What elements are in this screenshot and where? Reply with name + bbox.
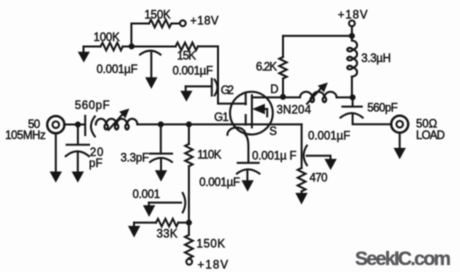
svg-text:0.001µF: 0.001µF (308, 131, 350, 143)
wire: 110K top stem (188, 124, 190, 144)
inductor L1 variable (input tank) (96, 119, 138, 125)
node: +18V junction (349, 33, 355, 39)
wire: 3.3pF stem (160, 124, 162, 152)
wire: tank to 560pF (337, 96, 353, 98)
wire: choke to drain tank (351, 77, 353, 98)
svg-text:+18V: +18V (198, 260, 229, 272)
wire: 20pF stem (77, 125, 79, 145)
svg-text:+18V: +18V (338, 9, 368, 21)
capacitor 0.001uF (source RF bypass) curved plate (304, 146, 307, 166)
svg-text:0.001µF: 0.001µF (173, 66, 214, 78)
svg-text:G1: G1 (214, 112, 229, 124)
capacitor 0.001uF (bias bypass, curved plate) (140, 51, 161, 55)
ground (0.001 cap) (148, 203, 150, 206)
channel bar (251, 95, 253, 127)
svg-text:LOAD: LOAD (416, 130, 445, 142)
wire: source line down to 470 (301, 124, 303, 168)
svg-text:110K: 110K (197, 150, 222, 162)
node: output junction (350, 94, 356, 100)
wire: 20pF to ground (77, 152, 79, 172)
ground (3.3pF) (156, 171, 167, 181)
capacitor 0.001uF (G2 bypass) curved plate (215, 80, 218, 96)
wire: 110K to 33K junction (188, 166, 190, 222)
node: input junction (20pF tap) (75, 122, 81, 128)
svg-text:S: S (269, 126, 277, 138)
svg-text:470: 470 (310, 173, 328, 185)
capacitor 0.001 (G1 bias) curved plate (183, 193, 186, 212)
substrate arrow (263, 109, 267, 116)
capacitor 20pF straight plate (67, 144, 89, 146)
svg-text:150K: 150K (144, 10, 171, 22)
capacitor 560pF (output) straight plate (342, 106, 361, 108)
capacitor 0.001uF (S bypass) straight plate (238, 162, 259, 164)
capacitor 3.3pF straight plate (150, 153, 172, 155)
svg-text:105MHz: 105MHz (5, 130, 46, 142)
terminal +18V (top left) (180, 20, 186, 26)
ground (input connector) (55, 133, 57, 172)
ground (source bypass) (325, 159, 336, 169)
wire: 470 to ground (301, 191, 303, 193)
wire: 0.001 cap lead (149, 202, 181, 204)
terminal +18V (bottom) (186, 259, 192, 265)
wire: 33K to junction (178, 222, 189, 224)
ground (33K) (133, 223, 135, 227)
ground (left of 100K) (83, 47, 85, 53)
wire: source arc hop (227, 127, 245, 134)
wire: +18V rail (top right) (283, 35, 352, 37)
transistor Q1 3N204 body (230, 92, 273, 135)
resistor 6.2K stem top (282, 36, 284, 57)
inductor 3.3uH choke (352, 36, 357, 77)
wire: +18V stem (351, 26, 353, 36)
node: junction 110K/33K/150K (186, 220, 192, 226)
svg-text:0.001: 0.001 (133, 189, 161, 201)
wire: main G1 line (137, 123, 301, 125)
resistor 110K (185, 144, 192, 166)
svg-text:560pF: 560pF (367, 103, 398, 115)
wire: 33K rail (134, 222, 156, 224)
wire: source bypass lead (307, 156, 331, 160)
arrow of variable inductor L2 (307, 88, 321, 104)
node: 110K tap (186, 121, 192, 127)
svg-text:33K: 33K (157, 229, 178, 241)
resistor 6.2K (279, 57, 286, 79)
drain lead (252, 96, 283, 98)
resistor 15K (176, 43, 198, 51)
wire: load connector ground stem (399, 133, 401, 149)
wire: G2 bypass lead (186, 85, 212, 87)
node: drain junction (280, 94, 286, 100)
capacitor 3.3pF curved plate (150, 158, 172, 162)
capacitor 20pF curved plate (66, 151, 89, 156)
svg-text:SeekIC.com: SeekIC.com (355, 248, 451, 270)
capacitor 560pF (input) curved plate (91, 116, 95, 136)
ground (470) (296, 193, 307, 203)
node: junction 100K/150K (129, 43, 135, 49)
svg-text:3N204: 3N204 (277, 105, 312, 117)
capacitor 0.001uF (G2 bypass) straight plate (211, 79, 213, 96)
svg-text:150K: 150K (197, 239, 226, 251)
connector output 50ohm load (391, 116, 408, 133)
wire: input to 560pF (64, 124, 84, 126)
wire: 560pF out stem (352, 97, 354, 105)
gate bar G1 (245, 115, 247, 125)
inductor L2 variable (drain tank) (300, 92, 337, 98)
wire: 15K to G2 drop (198, 46, 246, 103)
svg-text:100K: 100K (94, 32, 121, 44)
wire: 150K branch top corner (131, 24, 149, 47)
resistor 100K (101, 43, 123, 51)
svg-text:+18V: +18V (190, 16, 219, 28)
svg-text:6.2K: 6.2K (256, 62, 277, 74)
terminal +18V (top right) (349, 21, 355, 27)
wire: bias rail left (84, 46, 101, 48)
svg-text:pF: pF (89, 158, 103, 170)
svg-text:15K: 15K (177, 50, 196, 62)
svg-text:3.3µH: 3.3µH (361, 53, 391, 65)
wire: S bypass stem (246, 135, 249, 162)
capacitor 560pF (output) curved plate (341, 113, 363, 118)
gate bar G2 (245, 94, 247, 104)
resistor 33K (156, 219, 178, 227)
wire: 150K bottom stem (188, 223, 190, 235)
node: 3.3pF tap (158, 121, 164, 127)
svg-text:50Ω: 50Ω (416, 119, 438, 131)
wire: 150K to +18V terminal (188, 257, 190, 260)
svg-text:0.001µF: 0.001µF (97, 64, 138, 76)
arrow of variable inductor L1 (109, 114, 123, 130)
ground (G2 bypass) (185, 86, 187, 91)
svg-text:3.3pF: 3.3pF (121, 153, 150, 165)
svg-text:0.001µF: 0.001µF (199, 177, 240, 189)
svg-text:560pF: 560pF (75, 100, 110, 112)
connector input 50ohm (47, 116, 64, 133)
ground (bias bypass) (146, 78, 157, 88)
wire: cap to ground stem (150, 53, 152, 78)
ground (load) (394, 148, 405, 158)
ground (20pF) (73, 172, 84, 182)
resistor 470 (298, 168, 306, 191)
svg-text:G2: G2 (221, 85, 234, 97)
resistor 150K (top) (149, 20, 179, 28)
wire: S bypass to ground (246, 171, 248, 181)
svg-text:D: D (270, 84, 278, 96)
svg-text:0.001µ F: 0.001µ F (252, 151, 297, 163)
wire: bias rail middle (123, 46, 176, 48)
wire: 6.2K to drain (282, 79, 284, 97)
ground (S bypass) (242, 181, 253, 191)
wire: 3.3pF to ground (160, 159, 162, 170)
resistor 150K (bottom) (185, 235, 193, 258)
capacitor 0.001uF (S bypass) curved plate (237, 169, 260, 173)
capacitor 560pF (input) straight plate (84, 116, 86, 135)
wire: 560pF to load connector (353, 115, 392, 125)
wire: drain to tank coil (283, 96, 300, 98)
